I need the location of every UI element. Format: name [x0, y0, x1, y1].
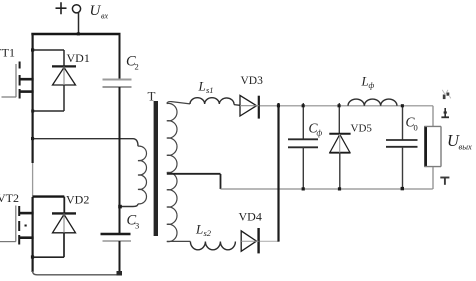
- node corner junction: [31, 48, 34, 51]
- node bottom rail right corner: [117, 271, 123, 276]
- svg-text:U: U: [90, 3, 102, 19]
- svg-text:VD3: VD3: [241, 75, 264, 87]
- node junction Cf top: [302, 104, 305, 107]
- capacitor C0: [386, 140, 418, 147]
- wire left column lower: [31, 197, 33, 272]
- wire input terminal to top rail: [78, 13, 80, 34]
- svg-text:VD1: VD1: [67, 51, 90, 65]
- svg-text:2: 2: [135, 62, 139, 72]
- wire secondary bottom to Ls2: [167, 240, 191, 242]
- label output terminal mark a: [443, 93, 450, 100]
- wire secondary top hook: [167, 102, 190, 104]
- wire center tap step down: [220, 174, 222, 189]
- capacitor Cf column upper: [302, 103, 304, 139]
- wire left column faded middle: [32, 163, 34, 197]
- svg-text:вых: вых: [459, 141, 472, 151]
- svg-text:0: 0: [414, 123, 418, 133]
- node +Uin terminal plus sign: [56, 2, 67, 14]
- capacitor C0 column upper: [402, 106, 404, 140]
- wire VD2 anode lead: [63, 233, 65, 257]
- wire load top lead: [432, 106, 434, 126]
- node junction on column at 111: [31, 110, 34, 113]
- svg-text:вх: вх: [101, 12, 108, 21]
- transformer T core: [154, 101, 158, 236]
- wire capacitor column middle: [119, 87, 121, 233]
- label output arrow top: [441, 108, 449, 117]
- svg-text:s2: s2: [204, 228, 212, 238]
- transistor VT1: [2, 62, 34, 99]
- wire VD1 anode lead: [63, 85, 65, 111]
- node junction output column top: [277, 104, 280, 107]
- inductor Lf: [348, 99, 397, 106]
- wire VD2 anode horizontal: [33, 256, 64, 258]
- wire left column upper (rail to VT1 region): [31, 34, 33, 163]
- wire output plus column: [277, 103, 279, 242]
- wire center tap horizontal: [167, 173, 221, 175]
- diode VD3: [240, 95, 259, 118]
- node junction C0 top: [401, 104, 404, 107]
- capacitor Cf: [288, 139, 318, 147]
- svg-text:L: L: [198, 79, 206, 94]
- diode VD4: [241, 228, 258, 253]
- diode VD5: [329, 134, 350, 153]
- capacitor C0 column lower: [402, 147, 404, 189]
- transformer T primary winding: [138, 146, 147, 204]
- transistor VT2: [0, 206, 34, 245]
- svg-text:ф: ф: [317, 129, 323, 138]
- node junction VD5 top: [338, 104, 341, 107]
- label output arrow bottom: [440, 178, 449, 185]
- diode VD5 cathode lead: [338, 103, 340, 134]
- diode VD5 anode lead: [339, 153, 341, 189]
- transformer T secondary winding: [167, 103, 177, 241]
- svg-text:3: 3: [135, 221, 139, 231]
- wire bottom rail: [33, 271, 120, 275]
- wire VD1 cathode branch horizontal: [33, 49, 64, 51]
- diode VD1: [52, 66, 76, 85]
- wire primary bottom to capacitor column: [120, 204, 138, 207]
- node junction C0 bottom: [401, 187, 404, 190]
- wire VT2 drain midpoint horizontal: [33, 195, 65, 197]
- capacitor Cf column lower: [302, 147, 304, 189]
- node junction input on rail: [77, 32, 80, 35]
- wire midpoint to primary: [33, 139, 138, 147]
- wire rectified top rail: [260, 105, 433, 107]
- node junction VD5 bottom: [338, 187, 341, 190]
- svg-text:L: L: [195, 222, 203, 237]
- wire VD1 anode horizontal to column: [33, 110, 64, 112]
- node junction Cf bottom: [302, 187, 305, 190]
- svg-text:VT1: VT1: [0, 46, 15, 60]
- svg-text:VD2: VD2: [66, 193, 89, 207]
- svg-text:ф: ф: [369, 81, 375, 90]
- wire capacitor column upper: [119, 34, 121, 79]
- svg-text:T: T: [148, 89, 156, 104]
- wire Ls1 to VD3: [234, 104, 240, 107]
- node junction capacitor midpoint: [118, 205, 122, 209]
- wire VD1 cathode lead: [63, 50, 65, 66]
- svg-text:s1: s1: [206, 85, 214, 95]
- node junction source column: [31, 255, 34, 258]
- wire output return rail: [221, 188, 433, 190]
- node junction midpoint: [31, 137, 34, 140]
- svg-text:VD5: VD5: [351, 123, 373, 135]
- diode VD2: [52, 213, 76, 232]
- capacitor C3: [101, 233, 131, 235]
- wire capacitor column lower: [119, 241, 121, 274]
- svg-text:L: L: [361, 74, 369, 89]
- inductor Ls1: [190, 98, 234, 105]
- wire top rail: [31, 33, 120, 36]
- wire VD4 to output column: [260, 240, 279, 242]
- svg-text:VT2: VT2: [0, 191, 19, 205]
- wire VD2 cathode lead: [63, 197, 65, 214]
- node +Uin terminal circle: [72, 5, 80, 13]
- svg-text:VD4: VD4: [239, 210, 262, 224]
- inductor Ls2: [190, 242, 235, 250]
- wire load bottom lead: [432, 167, 434, 189]
- capacitor C2: [103, 80, 132, 88]
- resistor Rn load: [424, 126, 441, 167]
